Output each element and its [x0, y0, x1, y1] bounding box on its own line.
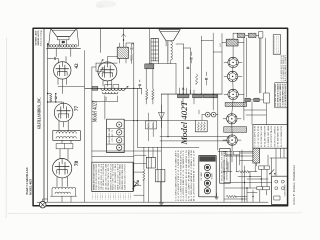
- dial lamp P1: [205, 112, 210, 117]
- small hatched box pair mid right: [245, 98, 250, 101]
- svg-text:42: 42: [74, 63, 80, 69]
- IF label bar 1: [225, 102, 246, 106]
- T2 secondary: [56, 136, 76, 138]
- electrolytic C10 box: [146, 157, 155, 168]
- dial lamp P2: [211, 112, 216, 117]
- svg-text:Schematic,Voltage: Schematic,Voltage: [40, 30, 43, 46]
- wire trimmer bus: [92, 63, 96, 162]
- speaker SP2 cone: [159, 30, 180, 41]
- wire B verticals: [183, 34, 222, 111]
- wire lamps: [202, 114, 218, 116]
- tube V4 6A7 converter: [98, 62, 117, 81]
- svg-text:R-15 35 OHM WW: R-15 35 OHM WW: [281, 125, 283, 147]
- wire top drop 213: [201, 33, 213, 41]
- svg-text:0.5 MEG 1W: 0.5 MEG 1W: [105, 192, 107, 200]
- wire B horizontals: [176, 41, 222, 53]
- speaker SP1 voice coil former: [58, 37, 70, 40]
- candohm box 1: [259, 166, 264, 169]
- tall note box: [220, 148, 231, 183]
- resistor R1 cathode: [50, 94, 52, 103]
- tube V2 77 first AF: [54, 103, 73, 122]
- wire K stubs: [180, 88, 194, 95]
- svg-text:HTRS PLATE GRID: HTRS PLATE GRID: [108, 128, 111, 144]
- wire V1 pins: [58, 78, 67, 85]
- wire V3 top leads: [60, 149, 68, 160]
- svg-text:42 245 250 -16.5 K 410: 42 245 250 -16.5 K 410: [106, 163, 108, 189]
- svg-text:R-14 400 OHM WW: R-14 400 OHM WW: [265, 125, 267, 147]
- resistor R17: [131, 54, 133, 60]
- svg-text:Model 402T: Model 402T: [91, 100, 98, 123]
- svg-text:IF 456 KC: IF 456 KC: [212, 173, 214, 179]
- trimmer circles: [204, 164, 210, 170]
- wire h-run y86.5: [58, 51, 85, 203]
- wire V3 pins: [57, 177, 67, 187]
- resistor R16: [226, 195, 236, 197]
- socket chart box A: [107, 119, 125, 152]
- svg-text:GILFILLAN BROS., INC.: GILFILLAN BROS., INC.: [36, 97, 41, 129]
- wire top drops: [100, 29, 123, 53]
- svg-text:0.5 MEG 1W: 0.5 MEG 1W: [92, 192, 94, 200]
- bottom right box B4: [272, 176, 288, 204]
- candohm box 3: [257, 187, 263, 190]
- capacitor C1 grid: [48, 58, 54, 60]
- field coil L4 loops: [171, 42, 173, 61]
- tube V1 42 output: [54, 62, 71, 79]
- svg-text:0.5 MEG 1W: 0.5 MEG 1W: [128, 192, 130, 200]
- node dot: [47, 43, 48, 44]
- svg-text:C-2 .05 400V TUB C-9 .1 MFD 2: C-2 .05 400V TUB C-9 .1 MFD 200 V: [178, 148, 180, 201]
- wire socket stubs: [223, 62, 244, 140]
- candohm box 2: [264, 166, 269, 169]
- wire mid h runs: [160, 137, 230, 141]
- ground G1: [215, 197, 219, 199]
- wire B bus: [161, 93, 222, 95]
- wire right mid drops: [272, 148, 284, 176]
- svg-text:0.5 MEG 1W: 0.5 MEG 1W: [95, 192, 97, 200]
- wire plate lead: [65, 57, 67, 63]
- voltage chart box: [92, 162, 133, 191]
- svg-text:78 250 100 -3 K 2.2: 78 250 100 -3 K 2.2: [101, 163, 103, 189]
- resistor R7: [196, 74, 198, 84]
- wire T6 leads: [146, 29, 153, 104]
- svg-text:0.5 MEG 1W: 0.5 MEG 1W: [97, 192, 99, 200]
- L1 base line: [51, 195, 77, 197]
- wire speaker frame left: [49, 28, 51, 46]
- socket V7: [228, 89, 238, 99]
- svg-text:77 100 40 -1.5 DIODE 0: 77 100 40 -1.5 DIODE 0: [103, 164, 105, 190]
- svg-text:C-17 .25 200V TUB: C-17 .25 200V TUB: [258, 126, 260, 147]
- trimmer box TB1: [105, 84, 112, 88]
- svg-text:0.5 MEG 1W: 0.5 MEG 1W: [123, 192, 125, 200]
- wire right vert: [133, 43, 135, 88]
- wire SP2 leads: [151, 41, 171, 64]
- left small boxes power: [226, 151, 232, 155]
- potentiometer arrow: [133, 181, 139, 189]
- svg-text:C-6 .25 200V TUB R-5 50,000 O: C-6 .25 200V TUB R-5 50,000 OHM: [188, 149, 190, 201]
- capacitor box C11: [156, 169, 165, 181]
- capacitor C2 bypass: [54, 97, 56, 99]
- page frame border: [33, 28, 288, 206]
- text block B2 box: [275, 83, 288, 108]
- wire T4 secondary to plate: [56, 49, 71, 57]
- wire top right mesh: [233, 33, 261, 120]
- wire T1 leads: [120, 43, 134, 63]
- wire h63: [104, 62, 117, 64]
- svg-text:0.5 MEG 1W: 0.5 MEG 1W: [130, 192, 132, 200]
- svg-text:0.5 MEG 1W: 0.5 MEG 1W: [100, 192, 102, 200]
- svg-text:0.5 MEG 1W: 0.5 MEG 1W: [107, 192, 109, 200]
- resistor R6: [152, 89, 154, 99]
- header band rule: [43, 28, 45, 206]
- capacitor C12: [130, 47, 132, 49]
- svg-text:MODEL 402T: MODEL 402T: [29, 179, 32, 195]
- wire lineup spine: [232, 46, 233, 151]
- wire power extra verticals: [237, 150, 256, 202]
- trimmer box TB2: [113, 84, 119, 88]
- svg-text:0.5 MEG 1W: 0.5 MEG 1W: [102, 192, 104, 200]
- resistor box RB1: [195, 120, 207, 131]
- wire power extra horizontals: [218, 151, 272, 199]
- transformer T4 core line: [47, 47, 81, 49]
- note box N1: [273, 35, 280, 55]
- capacitor C3 C4 box: [56, 143, 73, 148]
- svg-text:0.5 MEG 1W: 0.5 MEG 1W: [110, 192, 112, 200]
- tube V3 78 IF amp: [52, 159, 71, 178]
- svg-text:C-5 8 MFD 450V EL R-4 300 OHM: C-5 8 MFD 450V EL R-4 300 OHM 1 W: [186, 149, 188, 201]
- wire can leads: [222, 42, 244, 44]
- wire lamp drop: [183, 98, 202, 121]
- speaker SP1 cone: [51, 28, 77, 36]
- svg-text:Model 402T: Model 402T: [179, 100, 189, 145]
- small box top right: [259, 32, 263, 39]
- resistor R5: [146, 89, 148, 99]
- resistor R8: [143, 169, 145, 180]
- socket V8: [227, 114, 237, 124]
- capacitor C8: [190, 57, 192, 59]
- socket A circles: [117, 122, 122, 127]
- svg-text:R-2 250,000 OHM R-7 10,000 2: R-2 250,000 OHM R-7 10,000 2 W: [194, 149, 196, 201]
- small box x263.7: [264, 93, 270, 103]
- svg-text:C-16 .05 400V TUB: C-16 .05 400V TUB: [255, 126, 257, 147]
- svg-text:0.5 MEG 1W: 0.5 MEG 1W: [118, 192, 120, 200]
- wire stage coupling: [48, 85, 63, 104]
- svg-text:SW ON VOL CONTROL: SW ON VOL CONTROL: [274, 126, 276, 147]
- IF can K3: [204, 94, 217, 97]
- coupling box CB1: [146, 121, 157, 129]
- wire V4 pins: [103, 80, 112, 86]
- antenna coil can hatched: [226, 39, 238, 46]
- capacitor C9b: [205, 77, 207, 79]
- wire chart top runs: [92, 151, 162, 157]
- trimmer arrow TC1: [96, 60, 104, 67]
- svg-text:OSC 1400KC: OSC 1400KC: [201, 172, 203, 180]
- wire mid verticals: [134, 88, 142, 147]
- svg-text:0.5 MEG 1W: 0.5 MEG 1W: [125, 192, 127, 200]
- socket V6: [227, 71, 237, 81]
- candohm box 4: [263, 187, 270, 190]
- B4 small rect: [274, 196, 280, 200]
- transformer T4 primary loops: [47, 45, 50, 48]
- trimmer arrow TC2: [96, 68, 104, 75]
- wire h120: [124, 120, 195, 122]
- diode triangle D1: [159, 112, 165, 119]
- IF can K2: [193, 94, 203, 97]
- T2 primary: [56, 132, 76, 134]
- wire bottom bus: [37, 201, 268, 203]
- ground G2: [159, 203, 163, 205]
- wire audio columns: [144, 147, 160, 202]
- page edge shadow bottom: [8, 212, 302, 215]
- wire T2 leads: [59, 126, 71, 143]
- jack J1: [39, 201, 46, 208]
- wire V4 top: [107, 57, 117, 62]
- IF can K1: [178, 94, 189, 97]
- wire speaker frame right: [77, 28, 79, 46]
- speaker SP2 field coil frame: [151, 38, 158, 61]
- resistor R15: [239, 171, 249, 173]
- svg-text:C-18 .006 MFD 600V: C-18 .006 MFD 600V: [278, 125, 280, 147]
- line filter can 2: [249, 33, 256, 37]
- IF transformer T1 can hatched: [117, 47, 128, 58]
- trimmer box header: [199, 156, 216, 197]
- svg-text:6A7: 6A7: [219, 43, 222, 46]
- padder arrow: [125, 86, 129, 90]
- svg-text:MODEL 402T SOCKET VOLTAGES: MODEL 402T SOCKET VOLTAGES: [92, 163, 95, 190]
- svg-text:0.5 MEG 1W: 0.5 MEG 1W: [120, 192, 122, 200]
- wire CB1 leads: [149, 113, 154, 141]
- wire voice coil leads: [60, 40, 67, 46]
- svg-text:0.5 MEG 1W: 0.5 MEG 1W: [112, 192, 114, 200]
- B4 contents circles: [275, 180, 278, 183]
- svg-text:77: 77: [74, 106, 80, 112]
- wire coil drops: [92, 96, 118, 120]
- svg-text:C-3 .1 200V TUB C-10 8 MFD 45: C-3 .1 200V TUB C-10 8 MFD 450V EL: [181, 150, 183, 201]
- smudge top: [96, 1, 116, 8]
- wire vert x217.8: [217, 94, 219, 150]
- potentiometer P triangle: [134, 182, 139, 187]
- wire SP2 bottom bus: [150, 63, 177, 65]
- svg-text:2.2: 2.2: [104, 96, 108, 100]
- wire L1 leads: [52, 189, 76, 202]
- ballast tube R20: [253, 148, 260, 163]
- wire V2 pins: [59, 121, 68, 127]
- antenna arrow: [122, 34, 126, 37]
- socket V9: [227, 135, 237, 145]
- wire right col verticals: [260, 38, 266, 93]
- wire power mesh: [223, 152, 288, 203]
- svg-text:78: 78: [74, 161, 80, 167]
- wire B left vert: [160, 94, 162, 202]
- line filter can 1: [237, 33, 244, 37]
- socket V5: [228, 57, 238, 67]
- output transformer T6 dark: [145, 64, 154, 69]
- oscillator bus: [85, 87, 142, 89]
- IF transformer T2 can: [53, 131, 81, 141]
- wire V2 top: [63, 102, 65, 103]
- svg-text:John F. Rider, Publisher: John F. Rider, Publisher: [293, 165, 296, 205]
- svg-text:0.5 MEG 1W: 0.5 MEG 1W: [115, 192, 117, 200]
- parts box B3: [253, 125, 288, 149]
- capacitor C7: [139, 84, 141, 86]
- wire x168: [167, 94, 169, 137]
- oscillator coil L3: [101, 89, 125, 91]
- capacitor C9: [187, 66, 189, 68]
- svg-text:C-15 16 MFD 25V ELECT: C-15 16 MFD 25V ELECT: [285, 83, 287, 107]
- svg-text:R-1 500,000 OHM R-6 2 MEG 1/4: R-1 500,000 OHM R-6 2 MEG 1/4 W: [191, 149, 193, 201]
- coil L2 can end dark: [92, 87, 98, 91]
- antenna coil L1: [52, 187, 76, 189]
- wire jack lead: [43, 199, 48, 201]
- switch SW1: [270, 170, 274, 174]
- arrow stub: [182, 88, 184, 90]
- page edge shadow left: [5, 38, 7, 218]
- svg-text:6.3V 250V -3V: 6.3V 250V -3V: [112, 129, 114, 141]
- svg-text:L-5 FIELD 1800 OHM: L-5 FIELD 1800 OHM: [268, 125, 270, 147]
- IF label bar 2: [224, 127, 247, 133]
- wire left bus: [47, 44, 49, 202]
